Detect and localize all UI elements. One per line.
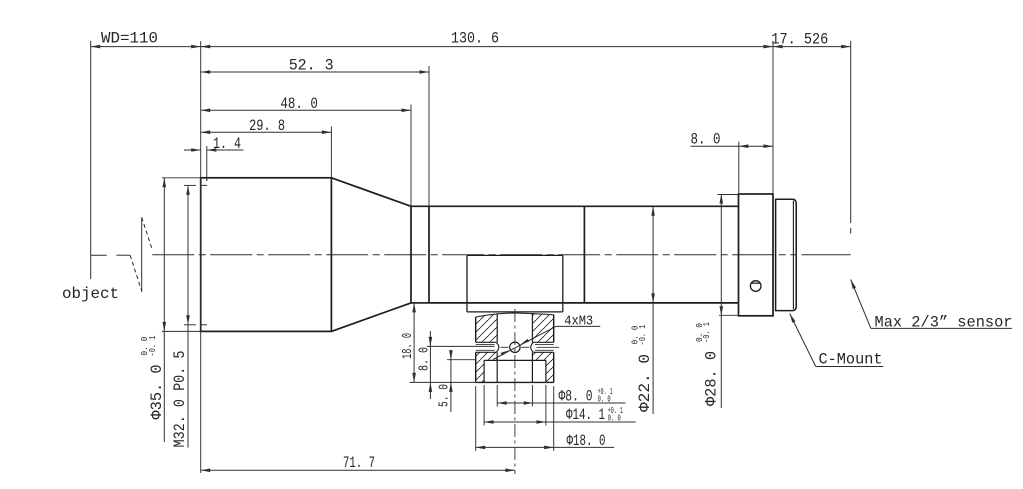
svg-text:71. 7: 71. 7 [343, 454, 375, 472]
block vertical centerline [514, 309, 516, 474]
dimension 5.0 [450, 350, 452, 412]
extension line front face [200, 41, 202, 473]
svg-text:C-Mount: C-Mount [819, 351, 883, 369]
dimension 130.6 [201, 46, 773, 48]
label 4xM3 [493, 326, 556, 359]
dimension 17.526 [773, 46, 851, 48]
dimension phi14.1 [484, 421, 636, 423]
svg-text:17. 526: 17. 526 [771, 31, 828, 49]
svg-text:Max 2/3” sensor: Max 2/3” sensor [875, 313, 1013, 331]
phi8 bore wall left [496, 313, 498, 342]
svg-text:52. 3: 52. 3 [289, 57, 334, 75]
svg-text:Φ35. 0: Φ35. 0 [148, 365, 166, 420]
counterbore wall right [545, 360, 547, 382]
hatch left lower [476, 352, 498, 382]
svg-text:object: object [62, 285, 119, 303]
hatch left upper [476, 313, 498, 342]
thread chamfer line [792, 201, 794, 309]
counterbore wall left [483, 360, 485, 382]
svg-text:18. 0: 18. 0 [400, 333, 416, 359]
svg-text:5. 0: 5. 0 [437, 384, 453, 407]
svg-text:8. 0: 8. 0 [417, 347, 433, 371]
svg-text:Φ14. 1: Φ14. 1 [566, 406, 605, 424]
barrel joint line 2 [583, 206, 585, 303]
svg-text:8. 0: 8. 0 [691, 131, 721, 149]
M3 hole horizontal centerline right [537, 346, 560, 348]
dimension 29.8 [201, 131, 332, 133]
svg-text:WD=110: WD=110 [101, 29, 158, 47]
taper cone upper line [331, 178, 411, 207]
dimension 71.7 [201, 469, 515, 471]
svg-text:Φ8. 0: Φ8. 0 [559, 388, 593, 406]
hatch right lower [532, 352, 553, 382]
break symbol [141, 217, 143, 292]
counterbore step line [484, 359, 546, 361]
dimension phi8 [497, 402, 625, 404]
optical axis centerline [152, 254, 796, 256]
section outer wall left [475, 317, 477, 342]
object plane centerline dashes [91, 254, 107, 256]
section bottom edge [476, 381, 554, 383]
dimension 8.0 ring width [691, 145, 774, 147]
dimension 8.0 hole height [429, 331, 431, 399]
barrel joint line 1 [428, 206, 430, 303]
dimension 18.0 [410, 302, 431, 304]
object plane line [90, 41, 92, 279]
dimension phi22 [652, 206, 654, 414]
svg-text:1. 4: 1. 4 [213, 135, 241, 153]
section wavy break line [476, 313, 554, 317]
front cylinder phi35 barrel [201, 178, 332, 332]
dimension phi35 [162, 177, 201, 179]
M3 hole right outline [533, 341, 553, 343]
front bezel step line [206, 178, 208, 181]
svg-text:Φ18. 0: Φ18. 0 [567, 432, 606, 450]
svg-text:M32. 0 P0. 5: M32. 0 P0. 5 [171, 351, 189, 448]
svg-text:48. 0: 48. 0 [280, 95, 318, 113]
svg-text:-0. 1: -0. 1 [148, 336, 158, 357]
dimension 48.0 [201, 109, 411, 111]
set screw circle [750, 281, 761, 292]
svg-text:-0. 1: -0. 1 [702, 322, 712, 343]
C-mount ring phi28 [739, 194, 774, 316]
dimension 52.3 [201, 71, 429, 73]
hatch right upper [532, 313, 553, 342]
C-mount thread cylinder [776, 199, 797, 310]
taper cone lower line [331, 303, 411, 332]
label C-Mount [790, 314, 796, 323]
svg-text:29. 8: 29. 8 [249, 117, 285, 135]
section outer wall right [553, 315, 555, 343]
extension line C-mount flange face [772, 41, 774, 194]
thread tick bottom [201, 324, 207, 326]
dimension M32x0.5 [187, 185, 189, 447]
dimension phi28 [717, 194, 738, 196]
thread tick top [201, 184, 207, 186]
svg-text:0. 0: 0. 0 [608, 414, 621, 424]
phi8 bore wall right [531, 313, 533, 342]
svg-text:130. 6: 130. 6 [451, 29, 499, 47]
mounting block outline [467, 254, 563, 256]
label Max 2/3 sensor [851, 280, 856, 290]
M3 far hole circle [510, 342, 520, 352]
svg-text:4xM3: 4xM3 [564, 313, 593, 329]
M3 hole left outline [476, 341, 497, 343]
M3 hole centerline dashes [501, 346, 509, 348]
svg-text:Φ28. 0: Φ28. 0 [703, 351, 721, 406]
main barrel phi22 outline [411, 205, 739, 207]
dimension phi18 [476, 446, 614, 448]
svg-text:Φ22. 0: Φ22. 0 [636, 354, 654, 412]
dimension WD=110 [91, 46, 201, 48]
dimension 1.4 [184, 149, 201, 151]
svg-text:0. 0: 0. 0 [598, 395, 611, 405]
sensor plane line [850, 41, 852, 223]
svg-text:-0. 1: -0. 1 [638, 325, 648, 346]
